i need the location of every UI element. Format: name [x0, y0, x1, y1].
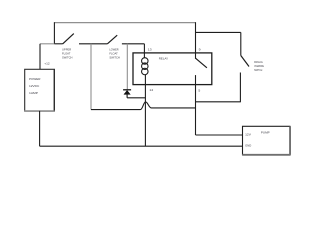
relay box — [133, 53, 212, 85]
wire relay pin 9 lead from top rail — [195, 22, 197, 59]
wire ground bottom rail — [40, 145, 243, 147]
wire power supply top lead — [39, 44, 41, 70]
svg-text:12V: 12V — [245, 133, 251, 137]
switch upper float — [54, 43, 62, 45]
svg-text:GND: GND — [245, 143, 251, 147]
svg-text:SWITCH: SWITCH — [254, 68, 262, 72]
relay contact blade — [196, 58, 207, 68]
wire diode branch vertical (gray) — [126, 44, 128, 90]
svg-text:SWITCH: SWITCH — [109, 55, 119, 59]
wire branch to manual override (top) — [196, 31, 241, 33]
svg-text:13: 13 — [148, 47, 152, 51]
wire power supply bottom lead — [39, 111, 41, 146]
wire relay pin 5 lead — [195, 75, 197, 135]
svg-text:1AMP: 1AMP — [29, 91, 38, 95]
wire latch line with hop over pin14 lead — [91, 102, 196, 110]
switch manual override — [240, 32, 242, 55]
pump box — [243, 126, 290, 154]
svg-text:SWITCH: SWITCH — [62, 55, 72, 59]
svg-text:PUMP: PUMP — [261, 131, 270, 135]
switch lower float — [107, 35, 117, 44]
svg-text:RELAY: RELAY — [159, 57, 168, 61]
svg-text:12VDC: 12VDC — [29, 84, 40, 88]
wire pump 12V feed — [196, 134, 243, 136]
wire relay pin 13 lead — [143, 44, 145, 58]
wire pin5 net to override bottom — [196, 101, 241, 103]
svg-text:14: 14 — [149, 88, 153, 92]
power supply box — [25, 69, 55, 111]
wire +12 top rail (gray) — [54, 22, 195, 24]
diode flyback — [123, 89, 131, 91]
wire latch branch vertical (gray) — [90, 44, 92, 110]
wire top rail drop to upper float switch — [53, 22, 55, 44]
relay coil — [142, 58, 149, 65]
wire +12 jog from power supply (gray) — [40, 43, 54, 45]
svg-text:+12: +12 — [44, 62, 50, 66]
svg-text:POWER: POWER — [29, 77, 41, 81]
wire diode anode to coil low side — [127, 97, 145, 99]
wire relay pin 14 lead to ground rail — [144, 75, 146, 147]
